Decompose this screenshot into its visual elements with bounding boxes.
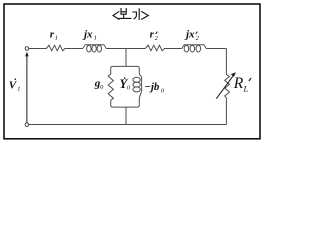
svg-text:−jb: −jb bbox=[144, 81, 160, 93]
svg-text:1: 1 bbox=[17, 86, 20, 93]
svg-text:1: 1 bbox=[94, 35, 97, 42]
svg-text:L: L bbox=[243, 83, 249, 93]
svg-text:R: R bbox=[233, 75, 244, 92]
svg-text:jx: jx bbox=[82, 29, 93, 41]
svg-text:jx: jx bbox=[184, 29, 195, 41]
svg-text:1: 1 bbox=[55, 34, 58, 41]
